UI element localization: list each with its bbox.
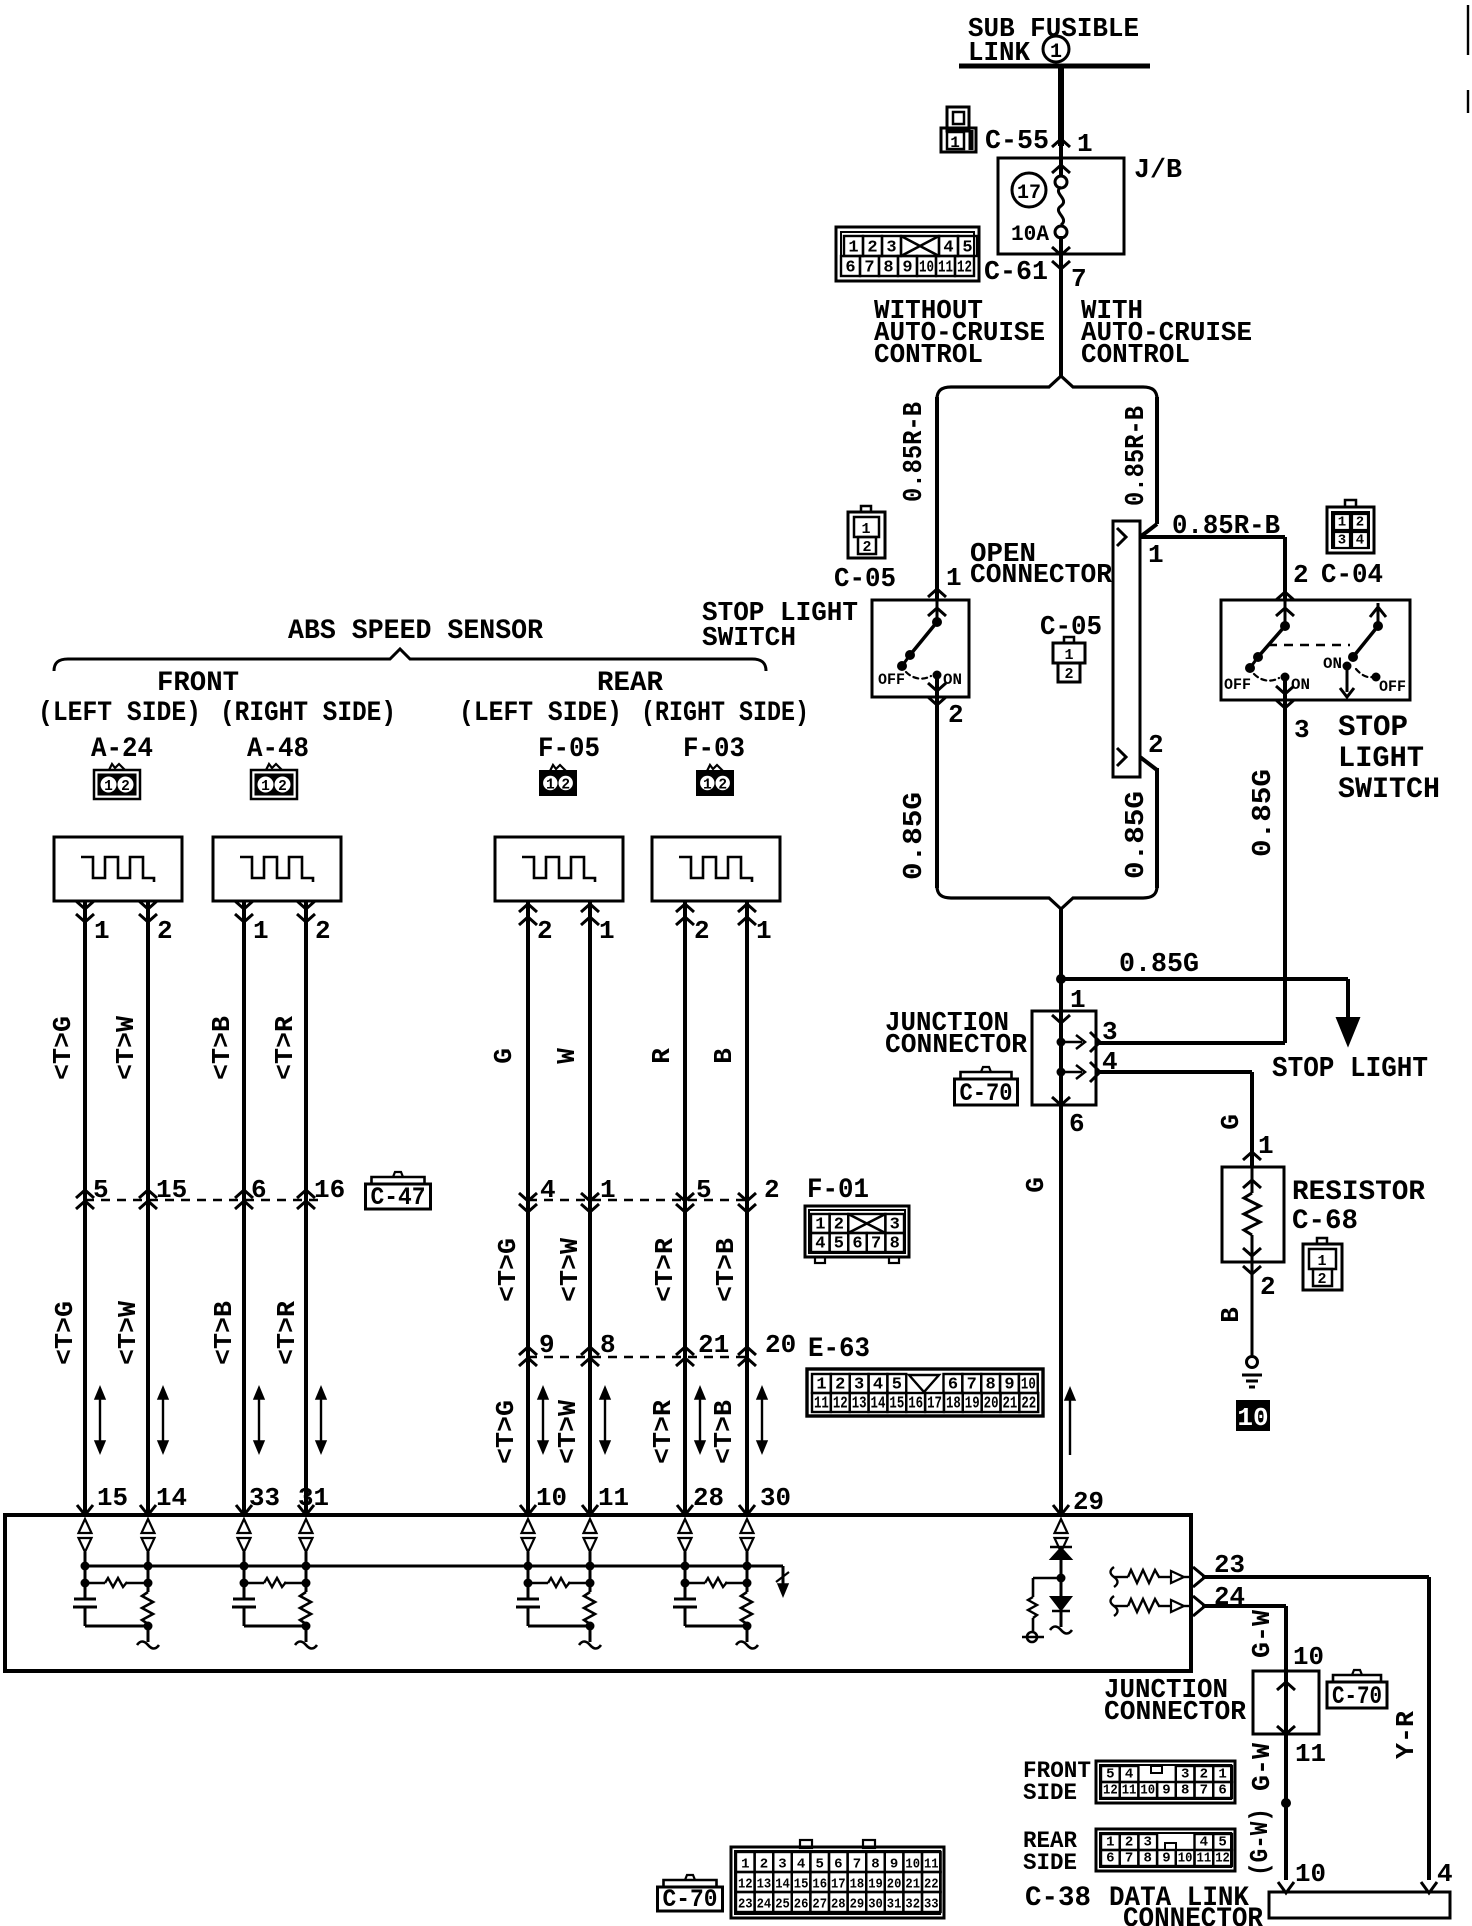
svg-text:C-47: C-47 [371,1183,426,1212]
svg-text:2: 2 [835,1376,845,1395]
svg-text:(G-W): (G-W) [1245,1808,1275,1876]
svg-text:24: 24 [757,1897,772,1913]
svg-text:STOP: STOP [1338,711,1408,745]
svg-text:3: 3 [886,239,896,258]
svg-text:OFF: OFF [1224,676,1251,694]
svg-text:3: 3 [1294,715,1310,745]
svg-text:28: 28 [831,1897,846,1913]
svg-text:2: 2 [315,916,331,946]
svg-text:2: 2 [1064,666,1073,683]
svg-text:5: 5 [834,1235,844,1254]
svg-text:7: 7 [853,1857,861,1873]
svg-text:10A: 10A [1011,222,1050,247]
svg-text:7: 7 [871,1235,881,1254]
svg-text:<T>W: <T>W [553,1400,583,1464]
svg-text:ON: ON [1323,655,1342,673]
svg-text:G-W: G-W [1247,1743,1277,1791]
svg-text:4: 4 [943,239,953,258]
svg-text:8: 8 [871,1857,879,1873]
svg-text:Y-R: Y-R [1391,1711,1421,1759]
svg-text:REAR: REAR [597,668,663,699]
svg-text:C-70: C-70 [960,1079,1013,1108]
svg-text:<T>G: <T>G [48,1016,78,1080]
svg-text:SIDE: SIDE [1023,1780,1077,1806]
svg-text:1: 1 [1077,129,1093,159]
svg-text:20: 20 [765,1330,796,1360]
svg-text:2: 2 [764,1175,780,1205]
svg-text:2: 2 [867,239,877,258]
svg-text:10: 10 [1178,1851,1193,1867]
svg-text:A-48: A-48 [247,734,309,765]
svg-text:5: 5 [815,1857,823,1873]
svg-text:11: 11 [1295,1739,1326,1769]
svg-text:6: 6 [1069,1109,1085,1139]
svg-text:<T>B: <T>B [711,1238,741,1302]
svg-text:3: 3 [890,1216,900,1235]
svg-text:12: 12 [1103,1783,1118,1799]
svg-text:12: 12 [1215,1851,1230,1867]
svg-text:4: 4 [1125,1767,1133,1783]
svg-text:8: 8 [986,1376,996,1395]
svg-text:LIGHT: LIGHT [1338,742,1424,776]
svg-text:1: 1 [703,778,712,794]
svg-text:21: 21 [1003,1395,1018,1414]
svg-text:31: 31 [887,1897,902,1913]
svg-text:CONNECTOR: CONNECTOR [885,1031,1028,1061]
svg-text:2: 2 [1293,560,1309,590]
svg-text:ON: ON [943,671,962,689]
svg-text:30: 30 [868,1897,883,1913]
svg-text:9: 9 [539,1330,555,1360]
svg-text:C-70: C-70 [1332,1682,1382,1711]
svg-text:C-70: C-70 [663,1885,718,1914]
svg-text:5: 5 [1218,1835,1226,1851]
svg-text:ABS SPEED SENSOR: ABS SPEED SENSOR [288,616,543,647]
svg-text:11: 11 [924,1857,939,1873]
svg-text:1: 1 [1106,1835,1114,1851]
svg-text:1: 1 [546,778,555,794]
svg-text:F-03: F-03 [683,734,745,765]
svg-text:7: 7 [864,259,874,278]
svg-text:STOP LIGHT: STOP LIGHT [1272,1052,1428,1085]
svg-text:13: 13 [757,1877,772,1893]
svg-text:R: R [647,1048,677,1064]
svg-text:15: 15 [97,1483,128,1513]
svg-text:<T>G: <T>G [50,1301,80,1365]
svg-text:16: 16 [314,1175,345,1205]
svg-text:11: 11 [1197,1851,1212,1867]
svg-text:1: 1 [1218,1767,1226,1783]
svg-text:9: 9 [902,259,912,278]
svg-text:2: 2 [862,539,871,556]
svg-text:12: 12 [738,1877,753,1893]
svg-text:15: 15 [889,1395,904,1414]
svg-text:C-05: C-05 [834,565,896,595]
svg-text:26: 26 [794,1897,809,1913]
svg-text:SIDE: SIDE [1023,1850,1077,1876]
svg-text:10: 10 [1293,1642,1324,1672]
svg-text:8: 8 [890,1235,900,1254]
svg-text:11: 11 [938,259,953,278]
svg-text:RESISTOR: RESISTOR [1292,1177,1425,1208]
svg-text:2: 2 [1200,1767,1208,1783]
svg-text:C-04: C-04 [1321,561,1383,591]
svg-text:CONTROL: CONTROL [1081,341,1190,371]
svg-text:1: 1 [741,1857,749,1873]
svg-text:19: 19 [965,1395,980,1414]
svg-text:17: 17 [927,1395,942,1414]
svg-text:6: 6 [1218,1783,1226,1799]
svg-text:G-W: G-W [1247,1610,1277,1658]
svg-text:1: 1 [816,1376,826,1395]
svg-text:G: G [1216,1114,1246,1130]
svg-text:22: 22 [924,1877,939,1893]
svg-text:8: 8 [1144,1851,1152,1867]
svg-text:4: 4 [1200,1835,1208,1851]
svg-text:1: 1 [946,563,962,593]
svg-text:25: 25 [775,1897,790,1913]
svg-text:21: 21 [905,1877,920,1893]
svg-text:2: 2 [834,1216,844,1235]
svg-text:23: 23 [738,1897,753,1913]
svg-text:1: 1 [261,779,270,795]
svg-text:B: B [1216,1307,1246,1323]
svg-text:18: 18 [850,1877,865,1893]
svg-text:8: 8 [883,259,893,278]
svg-text:6: 6 [251,1175,267,1205]
svg-text:14: 14 [775,1877,790,1893]
svg-text:3: 3 [1181,1767,1189,1783]
svg-text:CONNECTOR: CONNECTOR [970,561,1113,591]
svg-text:7: 7 [1200,1783,1208,1799]
svg-text:1: 1 [1148,540,1164,570]
svg-text:12: 12 [833,1395,848,1414]
svg-text:(LEFT SIDE): (LEFT SIDE) [459,698,622,729]
svg-text:W: W [552,1048,582,1064]
svg-text:3: 3 [1338,533,1346,549]
svg-text:1: 1 [104,779,113,795]
svg-text:10: 10 [1140,1783,1155,1799]
svg-text:1: 1 [1050,41,1062,64]
svg-text:0.85G: 0.85G [1122,791,1152,879]
svg-text:5: 5 [892,1376,902,1395]
svg-text:6: 6 [1106,1851,1114,1867]
svg-text:6: 6 [948,1376,958,1395]
svg-text:3: 3 [854,1376,864,1395]
svg-text:1: 1 [1258,1131,1274,1161]
svg-text:<T>R: <T>R [272,1301,302,1365]
svg-text:1: 1 [94,916,110,946]
svg-text:9: 9 [1162,1783,1170,1799]
svg-text:<T>B: <T>B [209,1301,239,1365]
svg-text:7: 7 [1071,264,1087,294]
svg-text:7: 7 [967,1376,977,1395]
svg-text:17: 17 [831,1877,846,1893]
svg-text:CONNECTOR: CONNECTOR [1123,1904,1263,1926]
svg-text:15: 15 [794,1877,809,1893]
svg-text:1: 1 [950,134,960,152]
svg-text:G: G [1021,1177,1051,1193]
svg-text:(LEFT SIDE): (LEFT SIDE) [38,698,201,729]
svg-text:3: 3 [778,1857,786,1873]
svg-text:0.85R-B: 0.85R-B [1122,406,1152,506]
svg-text:<T>G: <T>G [493,1238,523,1302]
svg-text:1: 1 [848,239,858,258]
svg-text:17: 17 [1017,182,1041,205]
svg-text:1: 1 [861,521,870,538]
svg-text:OFF: OFF [1379,678,1406,696]
svg-text:C-61: C-61 [984,258,1048,288]
svg-text:2: 2 [718,778,727,794]
svg-text:0.85G: 0.85G [1119,950,1199,980]
svg-text:<T>G: <T>G [491,1400,521,1464]
svg-text:<T>W: <T>W [113,1301,143,1365]
svg-text:2: 2 [561,778,570,794]
svg-text:12: 12 [957,259,972,278]
svg-text:A-24: A-24 [91,734,153,765]
svg-text:CONTROL: CONTROL [874,341,983,371]
svg-text:E-63: E-63 [808,1334,870,1365]
svg-text:5: 5 [962,239,972,258]
svg-text:6: 6 [834,1857,842,1873]
svg-text:3: 3 [1102,1017,1118,1047]
svg-text:11: 11 [598,1483,629,1513]
svg-text:5: 5 [93,1175,109,1205]
svg-text:2: 2 [121,779,130,795]
svg-text:<T>B: <T>B [207,1016,237,1080]
svg-text:2: 2 [1356,515,1364,531]
svg-text:4: 4 [1437,1859,1453,1889]
svg-text:1: 1 [1317,1253,1326,1270]
svg-text:5: 5 [1106,1767,1114,1783]
svg-text:4: 4 [815,1235,825,1254]
svg-text:19: 19 [868,1877,883,1893]
svg-text:21: 21 [698,1330,729,1360]
svg-text:10: 10 [1295,1859,1326,1889]
svg-text:16: 16 [908,1395,923,1414]
svg-text:ON: ON [1291,676,1310,694]
svg-text:33: 33 [249,1483,280,1513]
svg-text:C-05: C-05 [1040,613,1102,643]
svg-text:<T>R: <T>R [650,1238,680,1302]
svg-text:C-38: C-38 [1025,1883,1091,1914]
svg-text:<T>B: <T>B [709,1400,739,1464]
svg-text:1: 1 [599,916,615,946]
svg-text:1: 1 [253,916,269,946]
svg-text:(RIGHT SIDE): (RIGHT SIDE) [641,698,809,729]
svg-text:4: 4 [873,1376,883,1395]
svg-text:2: 2 [1148,730,1164,760]
svg-text:1: 1 [1064,647,1073,664]
svg-text:2: 2 [1125,1835,1133,1851]
svg-text:6: 6 [845,259,855,278]
svg-text:10: 10 [905,1857,920,1873]
svg-text:8: 8 [1181,1783,1189,1799]
svg-text:0.85R-B: 0.85R-B [900,402,930,502]
svg-text:15: 15 [156,1175,187,1205]
svg-text:14: 14 [156,1483,187,1513]
svg-text:1: 1 [1070,985,1086,1015]
svg-text:<T>R: <T>R [270,1016,300,1080]
svg-text:2: 2 [157,916,173,946]
svg-text:20: 20 [984,1395,999,1414]
svg-text:2: 2 [1317,1271,1326,1288]
svg-text:2: 2 [537,916,553,946]
svg-text:2: 2 [1260,1272,1276,1302]
svg-text:9: 9 [1004,1376,1014,1395]
svg-text:SWITCH: SWITCH [1338,773,1440,807]
svg-text:1: 1 [815,1216,825,1235]
svg-text:11: 11 [1122,1783,1137,1799]
svg-text:29: 29 [850,1897,865,1913]
svg-text:11: 11 [814,1395,829,1414]
svg-text:F-05: F-05 [538,734,600,765]
svg-text:0.85G: 0.85G [1249,769,1279,857]
svg-text:10: 10 [536,1483,567,1513]
svg-text:27: 27 [812,1897,827,1913]
svg-text:2: 2 [694,916,710,946]
svg-text:8: 8 [600,1330,616,1360]
svg-text:9: 9 [1162,1851,1170,1867]
svg-text:<T>W: <T>W [111,1016,141,1080]
svg-text:14: 14 [871,1395,886,1414]
svg-text:4: 4 [797,1857,805,1873]
svg-text:B: B [709,1048,739,1064]
svg-text:33: 33 [924,1897,939,1913]
svg-text:3: 3 [1144,1835,1152,1851]
svg-text:10: 10 [1021,1376,1036,1395]
svg-text:5: 5 [696,1175,712,1205]
svg-text:<T>R: <T>R [648,1400,678,1464]
svg-text:0.85R-B: 0.85R-B [1172,512,1280,542]
svg-text:2: 2 [278,779,287,795]
svg-text:1: 1 [600,1175,616,1205]
svg-text:C-68: C-68 [1292,1206,1358,1237]
svg-text:22: 22 [1021,1395,1036,1414]
svg-text:32: 32 [905,1897,920,1913]
svg-text:20: 20 [887,1877,902,1893]
svg-text:18: 18 [946,1395,961,1414]
svg-text:CONNECTOR: CONNECTOR [1104,1698,1247,1728]
svg-text:4: 4 [540,1175,556,1205]
svg-text:2: 2 [948,700,964,730]
svg-text:<T>W: <T>W [555,1238,585,1302]
svg-text:13: 13 [852,1395,867,1414]
svg-text:28: 28 [693,1483,724,1513]
svg-text:4: 4 [1356,533,1364,549]
svg-text:10: 10 [1237,1403,1268,1433]
svg-text:OFF: OFF [878,671,905,689]
svg-text:30: 30 [760,1483,791,1513]
svg-text:F-01: F-01 [807,1175,869,1206]
svg-text:1: 1 [1338,515,1346,531]
svg-text:10: 10 [919,259,934,278]
svg-text:2: 2 [760,1857,768,1873]
svg-text:6: 6 [852,1235,862,1254]
svg-text:(RIGHT SIDE): (RIGHT SIDE) [220,698,396,729]
svg-text:C-55: C-55 [985,127,1049,157]
svg-text:29: 29 [1073,1487,1104,1517]
svg-text:G: G [489,1048,519,1064]
svg-text:7: 7 [1125,1851,1133,1867]
svg-text:0.85G: 0.85G [900,792,930,880]
svg-text:9: 9 [890,1857,898,1873]
svg-text:1: 1 [756,916,772,946]
svg-text:FRONT: FRONT [157,668,239,699]
svg-text:SWITCH: SWITCH [702,624,796,654]
svg-text:16: 16 [812,1877,827,1893]
svg-text:J/B: J/B [1134,156,1182,186]
